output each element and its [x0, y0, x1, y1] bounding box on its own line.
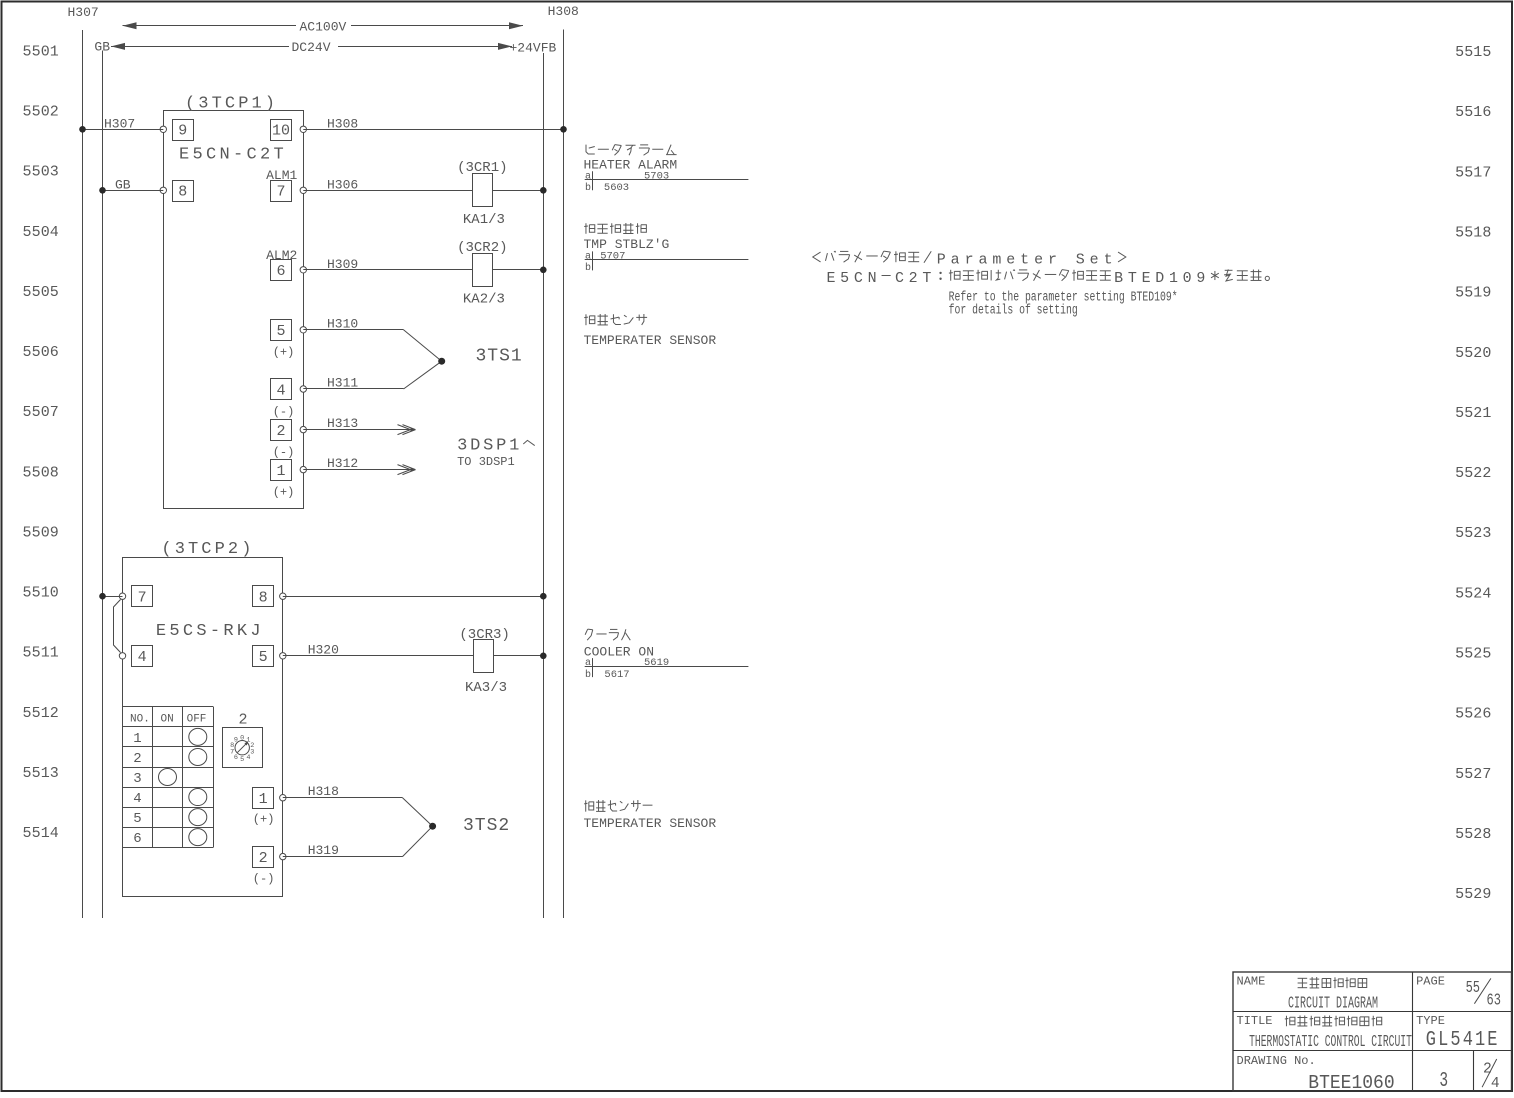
svg-text:1: 1	[276, 463, 285, 480]
svg-text:KA3/3: KA3/3	[465, 680, 507, 696]
svg-text:3TS2: 3TS2	[463, 816, 510, 836]
svg-text:(3CR1): (3CR1)	[457, 160, 507, 176]
svg-text:T: T	[1128, 271, 1137, 287]
svg-text:AC100V: AC100V	[300, 19, 347, 34]
svg-text:5503: 5503	[23, 164, 59, 181]
svg-text:2: 2	[1483, 1062, 1492, 1078]
svg-text:7: 7	[138, 590, 147, 607]
svg-text:4: 4	[133, 791, 141, 807]
svg-text:6: 6	[133, 831, 141, 847]
svg-text:1: 1	[259, 791, 268, 808]
svg-text:r: r	[1048, 253, 1057, 269]
svg-text:3DSP1: 3DSP1	[457, 437, 522, 456]
svg-text:4: 4	[246, 754, 250, 762]
svg-text:5514: 5514	[23, 825, 59, 842]
svg-text:(+): (+)	[273, 486, 295, 500]
svg-text:H306: H306	[327, 177, 358, 192]
svg-text:5519: 5519	[1455, 285, 1491, 302]
svg-text:5524: 5524	[1455, 585, 1491, 602]
svg-text:GL541E: GL541E	[1426, 1027, 1500, 1051]
svg-text:0: 0	[240, 735, 244, 743]
svg-text:5: 5	[133, 811, 141, 827]
svg-text:NO.: NO.	[130, 714, 150, 726]
svg-text:E: E	[1142, 271, 1151, 287]
svg-text:H313: H313	[327, 416, 358, 431]
svg-text:E5CN-C2T: E5CN-C2T	[179, 146, 287, 165]
svg-text:H318: H318	[308, 784, 339, 799]
svg-text:B: B	[1114, 271, 1123, 287]
svg-text:(-): (-)	[273, 445, 295, 459]
svg-text:THERMOSTATIC CONTROL CIRCUIT: THERMOSTATIC CONTROL CIRCUIT	[1249, 1032, 1412, 1052]
svg-text:P: P	[937, 253, 946, 269]
svg-text:H311: H311	[327, 376, 358, 391]
svg-text:5617: 5617	[604, 669, 629, 681]
svg-text:5: 5	[276, 323, 285, 340]
svg-text:2: 2	[276, 423, 285, 440]
svg-text:(+): (+)	[273, 346, 295, 360]
svg-text:5526: 5526	[1455, 706, 1491, 723]
svg-text:H307: H307	[104, 116, 135, 131]
svg-text:a: a	[978, 253, 987, 269]
svg-text:e: e	[1090, 253, 1099, 269]
svg-text:H309: H309	[327, 257, 358, 272]
svg-text:ALM1: ALM1	[266, 168, 297, 183]
svg-text:8: 8	[178, 184, 187, 201]
svg-text:5: 5	[259, 649, 268, 666]
svg-text:D: D	[1155, 271, 1164, 287]
svg-text:5501: 5501	[23, 43, 59, 60]
svg-text:t: t	[1104, 253, 1113, 269]
svg-text:3: 3	[133, 771, 141, 787]
svg-text:(3CR3): (3CR3)	[459, 627, 509, 643]
svg-text:H312: H312	[327, 456, 358, 471]
svg-text:KA2/3: KA2/3	[463, 291, 505, 307]
svg-text:(-): (-)	[273, 405, 295, 419]
svg-text:2: 2	[239, 712, 248, 729]
svg-text:5510: 5510	[23, 585, 59, 602]
svg-text:1: 1	[1169, 271, 1178, 287]
svg-text:5506: 5506	[23, 344, 59, 361]
svg-text:2: 2	[909, 271, 918, 287]
svg-text:(3CR2): (3CR2)	[457, 240, 507, 256]
svg-text:H308: H308	[548, 4, 579, 19]
svg-text:7: 7	[276, 184, 285, 201]
svg-text:5703: 5703	[644, 170, 669, 182]
svg-text:3: 3	[250, 748, 254, 756]
svg-text:a: a	[951, 253, 960, 269]
svg-text:4: 4	[138, 649, 147, 666]
svg-text:6: 6	[276, 263, 285, 280]
svg-text:E: E	[826, 271, 835, 287]
svg-text:5512: 5512	[23, 705, 59, 722]
svg-text:PAGE: PAGE	[1416, 975, 1445, 989]
svg-text:TEMPERATER SENSOR: TEMPERATER SENSOR	[584, 333, 717, 348]
svg-text:T: T	[922, 271, 931, 287]
svg-text:2: 2	[259, 850, 268, 867]
svg-text:a: a	[585, 658, 591, 669]
svg-text:5525: 5525	[1455, 646, 1491, 663]
svg-text:5513: 5513	[23, 765, 59, 782]
svg-text:e: e	[1006, 253, 1015, 269]
svg-text:4: 4	[276, 382, 285, 399]
svg-text:3TS1: 3TS1	[476, 346, 523, 366]
svg-text:5603: 5603	[604, 182, 629, 194]
svg-text:5707: 5707	[600, 250, 625, 262]
svg-text:(+): (+)	[253, 813, 275, 827]
svg-text:H307: H307	[68, 5, 99, 20]
svg-text:5529: 5529	[1455, 886, 1491, 903]
svg-text:5528: 5528	[1455, 826, 1491, 843]
svg-text:5516: 5516	[1455, 104, 1491, 121]
svg-text:S: S	[1076, 253, 1085, 269]
svg-text:+24VFB: +24VFB	[510, 41, 557, 56]
svg-text:CIRCUIT DIAGRAM: CIRCUIT DIAGRAM	[1288, 994, 1378, 1014]
svg-text:TEMPERATER SENSOR: TEMPERATER SENSOR	[584, 816, 717, 831]
svg-text:TITLE: TITLE	[1237, 1014, 1273, 1028]
svg-text:5515: 5515	[1455, 44, 1491, 61]
svg-text:5523: 5523	[1455, 525, 1491, 542]
svg-text:a: a	[585, 251, 591, 262]
svg-text:2: 2	[133, 751, 141, 767]
svg-text:0: 0	[1183, 271, 1192, 287]
svg-text:C: C	[854, 271, 863, 287]
svg-text:C: C	[895, 271, 904, 287]
svg-text:5509: 5509	[23, 524, 59, 541]
svg-text:ON: ON	[161, 714, 174, 726]
svg-text:5520: 5520	[1455, 345, 1491, 362]
svg-text:55: 55	[1466, 979, 1480, 997]
svg-text:KA1/3: KA1/3	[463, 212, 505, 228]
svg-text:10: 10	[272, 123, 290, 140]
svg-text:5508: 5508	[23, 464, 59, 481]
svg-text:6: 6	[234, 754, 238, 762]
svg-text:r: r	[965, 253, 974, 269]
svg-text:H308: H308	[327, 116, 358, 131]
svg-text:for details of setting: for details of setting	[949, 302, 1078, 318]
svg-text:5: 5	[840, 271, 849, 287]
svg-text:8: 8	[259, 590, 268, 607]
svg-text:5522: 5522	[1455, 465, 1491, 482]
svg-text:5: 5	[240, 756, 244, 764]
svg-text:b: b	[585, 182, 591, 194]
svg-text:9: 9	[234, 737, 238, 745]
svg-text:9: 9	[178, 123, 187, 140]
svg-text:OFF: OFF	[187, 714, 207, 726]
svg-text:1: 1	[133, 731, 141, 747]
svg-text:5511: 5511	[23, 645, 59, 662]
svg-text:DRAWING No.: DRAWING No.	[1237, 1054, 1316, 1068]
svg-text:t: t	[1020, 253, 1029, 269]
svg-text:5518: 5518	[1455, 225, 1491, 242]
svg-text:5517: 5517	[1455, 164, 1491, 181]
svg-text:e: e	[1034, 253, 1043, 269]
svg-text:5504: 5504	[23, 224, 59, 241]
svg-text:TO 3DSP1: TO 3DSP1	[457, 455, 515, 469]
svg-text:E5CS-RKJ: E5CS-RKJ	[156, 622, 264, 641]
svg-text:5502: 5502	[23, 104, 59, 121]
svg-text:(-): (-)	[253, 872, 275, 886]
svg-text:63: 63	[1487, 992, 1501, 1010]
svg-text:b: b	[585, 669, 591, 681]
svg-text:3: 3	[1439, 1070, 1448, 1093]
svg-text:5507: 5507	[23, 404, 59, 421]
svg-text:TYPE: TYPE	[1416, 1014, 1445, 1028]
svg-text:BTEE1060: BTEE1060	[1308, 1071, 1394, 1093]
svg-text:(3TCP2): (3TCP2)	[161, 540, 254, 559]
svg-text:H319: H319	[308, 843, 339, 858]
svg-text:H320: H320	[308, 642, 339, 657]
svg-text:a: a	[585, 171, 591, 182]
svg-text:TMP STBLZ'G: TMP STBLZ'G	[584, 237, 670, 252]
svg-text:ALM2: ALM2	[266, 248, 297, 263]
svg-text:N: N	[868, 271, 877, 287]
svg-text:GB: GB	[115, 177, 131, 192]
svg-text:m: m	[992, 253, 1001, 269]
svg-text:5527: 5527	[1455, 766, 1491, 783]
svg-text:b: b	[585, 262, 591, 274]
svg-text:5619: 5619	[644, 657, 669, 669]
svg-text:GB: GB	[94, 40, 110, 55]
svg-text:DC24V: DC24V	[292, 40, 331, 55]
svg-text:H310: H310	[327, 316, 358, 331]
svg-text:5505: 5505	[23, 284, 59, 301]
svg-text:9: 9	[1196, 271, 1205, 287]
svg-text:(3TCP1): (3TCP1)	[185, 95, 278, 114]
svg-text:4: 4	[1491, 1076, 1500, 1092]
svg-text:5521: 5521	[1455, 405, 1491, 422]
svg-text:NAME: NAME	[1237, 975, 1266, 989]
